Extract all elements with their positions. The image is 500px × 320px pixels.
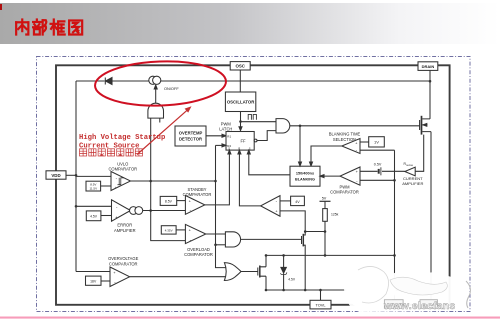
comparator OVERVOLTAGE [110, 267, 130, 287]
wire: ref to EA + [101, 215, 112, 217]
wire: blanking out to FF [247, 150, 290, 175]
wire: standby out to FF [205, 150, 231, 205]
current source ON/OFF (double circle) [149, 76, 161, 84]
wire: AND2 out to Q3 gate [241, 238, 302, 240]
wire: oscillator to FF top / AND1 [239, 112, 276, 131]
clock pulse symbol [248, 114, 256, 119]
wire: comparator - to sense rail [360, 149, 395, 151]
comparator OVERLOAD [185, 224, 205, 243]
block OVERTEMP DETECTOR [175, 126, 206, 146]
svg-text:R1: R1 [227, 134, 231, 138]
OR gate U3 [224, 263, 241, 281]
hysteresis symbol [118, 178, 125, 185]
wire: dome left leg / comp rail [151, 118, 186, 241]
pin COMP [384, 300, 403, 309]
wire: OV out to OR gate [130, 276, 227, 278]
IC boundary box [56, 65, 450, 304]
ref 4V box [291, 196, 305, 205]
svg-text:0.5V: 0.5V [374, 162, 382, 166]
pin OSC [230, 62, 250, 70]
svg-text:125k: 125k [331, 213, 339, 217]
red arrow annotation [137, 106, 192, 154]
title bar [0, 3, 500, 44]
power MOSFET M1 [420, 116, 431, 135]
transistor Q3 (overload discharge) [302, 232, 306, 291]
svg-text:4V: 4V [295, 200, 300, 204]
wire: PWM out to blanking block [320, 175, 340, 178]
comp rail (COMP pin riser) [394, 150, 396, 300]
comparator 4V (left) [261, 196, 280, 217]
ref 4.35V box (overload) [161, 226, 176, 234]
ref 18V box (OV) [86, 276, 102, 285]
svg-text:DETECTOR: DETECTOR [179, 137, 202, 142]
wire: UVLO rail to AND2 lower input [216, 244, 226, 246]
red corner tick [0, 4, 2, 10]
error amplifier [112, 200, 131, 221]
wire: BTS output to blanking block [310, 146, 342, 166]
wire: ref to overload + [176, 229, 185, 231]
current amplifier [405, 167, 415, 176]
wire: MOSFET source rail to SOURCE pin [430, 132, 432, 300]
EA output current source (double circle) [130, 207, 143, 215]
pass device (startup HV transistor dome) [148, 103, 164, 118]
wire: startup rail top [76, 80, 430, 82]
zener DZ1 4.5V [280, 255, 287, 290]
wire: 4V comp out to FF [238, 150, 261, 206]
wire: 4V box to - input [280, 200, 291, 202]
comparator STANDBY [185, 196, 204, 215]
battery 0.5V offset [379, 167, 381, 175]
title 内部框图 (drawn strokes) [16, 20, 82, 35]
svg-text:4.5V: 4.5V [90, 215, 98, 219]
transistor Q2 [258, 266, 266, 278]
wire: ground/source line [266, 289, 431, 291]
ref 4.5V box (EA) [86, 211, 101, 221]
svg-text:AMPLIFIER: AMPLIFIER [114, 228, 136, 233]
wire: Q2 source down [265, 276, 267, 290]
wire: DRAIN pin down to MOSFET [429, 70, 431, 119]
svg-text:4.5V: 4.5V [288, 278, 296, 282]
pin DRAIN [418, 62, 438, 71]
wire: PWM - to comp rail [360, 179, 395, 181]
ghost pin SOURCE [420, 300, 437, 309]
svg-text:5V: 5V [322, 197, 327, 201]
wire: dome right leg [159, 118, 161, 122]
svg-text:DRAIN: DRAIN [422, 64, 435, 69]
wire: AND1 line junction down to blanking [299, 126, 302, 166]
svg-text:BLANKING: BLANKING [295, 178, 315, 182]
wire: rail to OV + [76, 271, 110, 273]
wire: node X horizontal [305, 232, 325, 256]
wire: 1V to comparator + [360, 141, 369, 143]
wire: FF R2 from UVLO rail [216, 144, 227, 147]
watermark blobs (elecfans logo ghost) [344, 259, 470, 312]
ref 1V box [369, 137, 385, 147]
pin VDD [46, 171, 66, 179]
wire: ref to standby + [177, 200, 186, 202]
svg-text:COMPARATOR: COMPARATOR [109, 261, 138, 266]
svg-text:4.35V: 4.35V [165, 229, 173, 233]
ref 8.5/11.5V box [86, 181, 101, 191]
wire: Q2 drain up [265, 255, 267, 266]
svg-text:8.5V: 8.5V [165, 200, 173, 204]
wire: OR out to Q2 gate [241, 271, 258, 273]
svg-text:OVERTEMP: OVERTEMP [179, 131, 203, 136]
block 150/400ns BLANKING [290, 166, 320, 186]
pink bottom line [0, 317, 500, 319]
wire: UVLO out [131, 180, 216, 182]
UVLO vertical rail [216, 145, 228, 267]
flip-flop FF (PWM latch) [226, 132, 257, 151]
5V supply bar [320, 197, 331, 202]
wire: AND1 out to MOSFET gate [290, 125, 420, 127]
red text 高压启动电流源 (drawn) [80, 149, 143, 156]
svg-text:www.elecfans: www.elecfans [383, 300, 455, 312]
wire: OSC pin to oscillator [239, 70, 241, 92]
svg-text:LATCH: LATCH [219, 127, 232, 132]
svg-text:OSCILLATOR: OSCILLATOR [227, 100, 255, 105]
ghost pin COMP [384, 300, 403, 309]
svg-text:COMPARATOR: COMPARATOR [108, 167, 137, 172]
svg-text:11.5V: 11.5V [89, 187, 97, 191]
wire: ref to OV - [101, 280, 110, 282]
svg-text:ON/OFF: ON/OFF [164, 86, 179, 91]
wire: rail to UVLO - [76, 175, 111, 177]
pin TOVL [310, 300, 331, 309]
wire: ref to UVLO + [101, 185, 111, 187]
AND gate U2 (overload) [225, 232, 240, 247]
wire: overtemp to FF R1 [206, 134, 226, 137]
wire: PWM + to battery / current amp [360, 170, 405, 172]
red ellipse annotation [94, 59, 226, 108]
svg-text:VDD: VDD [51, 173, 60, 178]
comparator: blanking time selection [342, 139, 360, 154]
svg-text:High Voltage Startup: High Voltage Startup [79, 134, 165, 142]
comparator PWM [340, 167, 360, 185]
wire: VDD left rail [75, 81, 77, 272]
svg-text:18V: 18V [90, 280, 97, 284]
wire: VDD pin to rail [66, 174, 76, 176]
dashed outer border [37, 57, 471, 312]
wire: + input to node X [280, 211, 305, 232]
block OSCILLATOR [225, 92, 255, 112]
diode D1 (startup) [105, 78, 112, 85]
comparator UVLO [111, 172, 131, 191]
svg-text:OSC: OSC [235, 64, 245, 69]
ref 8.5V box (standby) [160, 196, 177, 205]
pin SOURCE [420, 300, 437, 309]
svg-text:sense: sense [406, 164, 413, 167]
wire: TOVL pin riser [320, 290, 322, 300]
wire: FF Q out to AND1 [257, 131, 276, 141]
svg-text:150/400ns: 150/400ns [296, 172, 314, 176]
svg-text:COMPARATOR: COMPARATOR [330, 190, 359, 195]
wire: sense line to current amp [415, 135, 424, 172]
wire: arrow from pass device to current source [154, 85, 157, 103]
svg-text:COMPARATOR: COMPARATOR [184, 252, 213, 257]
resistor R1 125k [323, 201, 328, 231]
svg-text:TOVL: TOVL [315, 303, 326, 308]
AND gate U1 (driver) [276, 119, 290, 133]
wire: rail to EA - [76, 205, 112, 207]
wire: overload node line [266, 254, 395, 256]
wire: overload out to AND2 [206, 233, 226, 235]
svg-text:1V: 1V [374, 140, 379, 145]
svg-text:AMPLIFIER: AMPLIFIER [402, 181, 423, 186]
svg-text:FF: FF [240, 139, 246, 144]
wire: EA out to standby - / comp rail [143, 210, 186, 212]
